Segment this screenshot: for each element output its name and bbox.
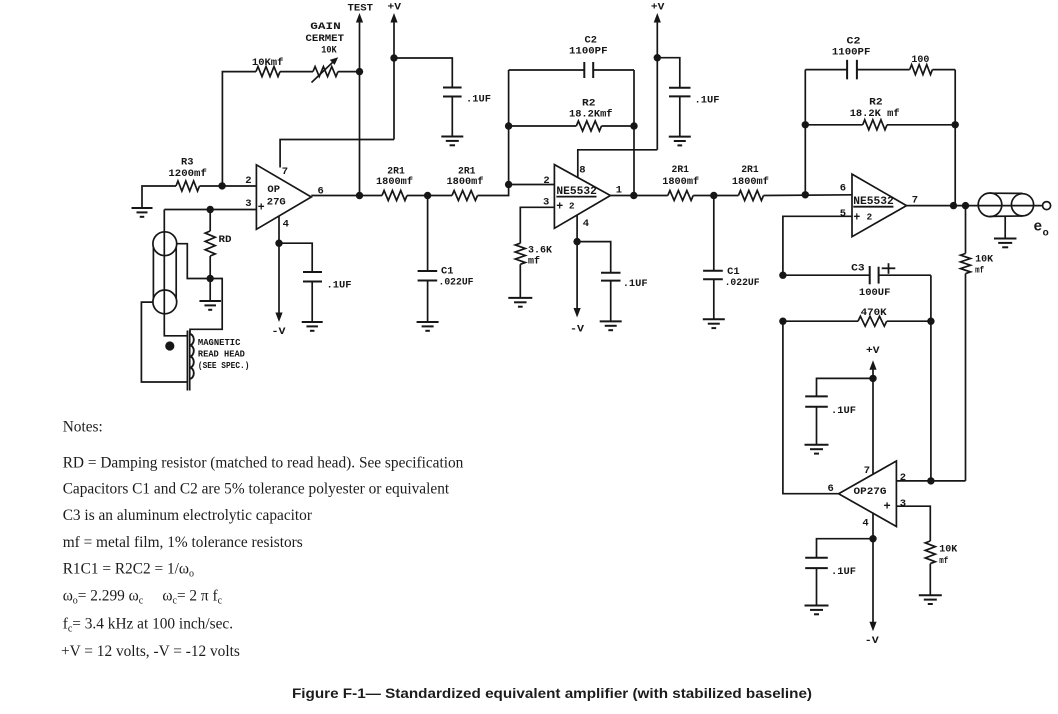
svg-text:READ HEAD: READ HEAD [198, 350, 245, 360]
svg-text:-V: -V [272, 326, 287, 338]
op-amp U3 NE5532 (stage3) [852, 174, 907, 237]
node 470K left [779, 318, 786, 325]
node R2 left (stage3) [802, 121, 809, 128]
cable loop lower [153, 290, 177, 314]
node pin4 stage4 [869, 535, 876, 542]
winding phase dot [165, 341, 174, 350]
svg-text:mf = metal film, 1% tolerance: mf = metal film, 1% tolerance resistors [63, 534, 303, 551]
node TEST junction [356, 68, 363, 75]
svg-text:MAGNETIC: MAGNETIC [198, 338, 241, 348]
wire pin 7 stage4 [872, 378, 874, 475]
node R2 left (stage2) [505, 122, 512, 129]
svg-text:2: 2 [543, 175, 549, 187]
wire cable loop1 to shield node [177, 244, 211, 279]
capacitor C1 .022UF (a) [427, 196, 429, 272]
resistor R2 18.2K mf (stage3) [805, 124, 862, 126]
svg-text:+: + [884, 500, 891, 514]
node R2 right (stage2) [630, 122, 637, 129]
read head core lines [186, 331, 188, 391]
ground under C1b [703, 318, 725, 320]
wire pin4 to bypass cap stage4 [817, 539, 874, 558]
svg-text:10Kmf: 10Kmf [252, 57, 284, 68]
ground under bias 10K [919, 594, 942, 596]
inductor read-head winding [190, 334, 194, 379]
svg-text:2R1: 2R1 [741, 164, 759, 176]
op-amp U2 NE5532 (stage2) [554, 165, 610, 229]
op-amp U4 OP27G (pointing left) [839, 461, 897, 527]
ground under output connector [1004, 216, 1006, 238]
svg-text:Notes:: Notes: [63, 418, 103, 435]
svg-text:R2: R2 [869, 97, 883, 109]
svg-text:e: e [1034, 220, 1043, 236]
svg-text:OP: OP [267, 184, 280, 196]
svg-text:10K: 10K [939, 544, 958, 556]
svg-text:Capacitors C1 and C2 are 5% to: Capacitors C1 and C2 are 5% tolerance po… [63, 481, 450, 498]
capacitor .1UF bypass stage2 [669, 87, 691, 89]
op-amp U1 OP27G [256, 165, 311, 230]
wire integrator left leg [783, 321, 839, 494]
svg-text:2: 2 [569, 201, 575, 212]
svg-text:27G: 27G [267, 196, 286, 208]
C3 polarity plus [882, 267, 896, 269]
svg-text:2: 2 [867, 212, 873, 223]
wire pin 2 stage4 [896, 480, 965, 482]
capacitor .1UF stage1 V- [303, 271, 322, 273]
svg-text:+: + [258, 202, 265, 215]
svg-text:18.2Kmf: 18.2Kmf [569, 109, 613, 121]
svg-text:GAIN: GAIN [310, 21, 341, 33]
wire pin 4 stage4 [872, 513, 874, 539]
wire pin 3 stage2 [520, 207, 554, 243]
node 470K right [927, 318, 934, 325]
node feedback/output stage2 [630, 192, 637, 199]
+V supply arrow stage 1 [393, 19, 395, 140]
svg-text:1800mf: 1800mf [662, 176, 699, 188]
wire pin 4 branch [278, 216, 280, 243]
wire +V to bypass cap C4 [394, 58, 452, 88]
node pin2 / feedback junction [218, 182, 225, 189]
svg-text:o: o [1043, 228, 1049, 240]
svg-text:TEST: TEST [348, 3, 374, 15]
cable loop upper [153, 232, 177, 256]
svg-text:2R1: 2R1 [672, 164, 690, 176]
resistor 3.6K mf [515, 243, 525, 264]
svg-text:18.2K mf: 18.2K mf [850, 108, 900, 120]
svg-text:(SEE SPEC.): (SEE SPEC.) [198, 361, 250, 371]
wire 2R1b to stage2 (jog up to pin2) [478, 185, 555, 196]
svg-text:100: 100 [911, 54, 929, 66]
wire pin4 to bypass cap C5 [279, 243, 312, 272]
capacitor C2 1100PF (stage2) [509, 69, 585, 71]
ground under C1a [417, 321, 439, 323]
svg-text:4: 4 [283, 218, 289, 230]
-V arrow stage 2 [576, 242, 578, 312]
svg-text:-V: -V [865, 635, 880, 647]
svg-text:.1UF: .1UF [327, 280, 352, 292]
ground under C5 [302, 321, 323, 323]
wire 10Kmf to pot [280, 71, 313, 73]
capacitor C1 .022UF (b) [713, 196, 715, 271]
potentiometer GAIN CERMET 10K [313, 67, 338, 77]
capacitor C3 100UF [783, 274, 870, 276]
node RD bottom / shield [207, 275, 214, 282]
svg-text:.022UF: .022UF [725, 277, 760, 289]
resistor 2R1 (d) 1800mf [714, 195, 739, 197]
node stage3 pin6 / feedback [802, 191, 809, 198]
ground under 3.6K [508, 297, 532, 299]
svg-text:fc= 3.4 kHz at 100 inch/sec.: fc= 3.4 kHz at 100 inch/sec. [63, 615, 233, 634]
svg-text:.1UF: .1UF [623, 278, 648, 290]
wire TEST down to output node [359, 72, 361, 196]
svg-text:R1C1 = R2C2 = 1/ωo: R1C1 = R2C2 = 1/ωo [63, 560, 194, 579]
-V arrow stage 4 [872, 539, 874, 626]
wire winding bottom to cable [141, 302, 187, 382]
svg-text:OP27G: OP27G [854, 486, 887, 498]
svg-text:8: 8 [579, 165, 585, 177]
-V arrow stage 1 [278, 243, 280, 316]
svg-text:+V: +V [866, 345, 880, 357]
+V supply arrow stage 4 [872, 366, 874, 378]
coax output connector [978, 193, 1002, 217]
ground under stage4 V- cap [805, 605, 829, 607]
wire pin 3 input [164, 209, 256, 211]
output terminal circle [1043, 202, 1051, 210]
svg-text:+: + [556, 200, 563, 213]
svg-text:5: 5 [840, 208, 846, 220]
wire feedback 10Kmf left leg [222, 72, 256, 186]
wire pin 3 stage4 [896, 506, 930, 541]
node C1a junction [424, 192, 431, 199]
wire shield step to head core [190, 279, 222, 335]
wire pin 4 stage2 [576, 215, 578, 241]
TEST point arrow [359, 19, 361, 72]
node output / 10K sense [962, 202, 969, 209]
wire pot to TEST node [338, 71, 360, 73]
svg-text:470K: 470K [861, 307, 888, 319]
resistor 10K mf (pin3 bias) [925, 541, 935, 564]
svg-text:1800mf: 1800mf [376, 176, 413, 188]
node C3 left [779, 272, 786, 279]
svg-text:7: 7 [864, 465, 870, 477]
resistor 2R1 (b) 1800mf [428, 195, 452, 197]
wire center conductor pin3 to winding [164, 210, 188, 336]
svg-text:7: 7 [912, 194, 918, 206]
svg-text:.1UF: .1UF [695, 94, 720, 106]
svg-text:1100PF: 1100PF [832, 47, 871, 59]
svg-text:Figure F-1— Standardized equiv: Figure F-1— Standardized equivalent ampl… [292, 685, 812, 701]
wire pin 5 stage3 [783, 216, 852, 275]
wire stage3 output [907, 205, 979, 207]
svg-text:2: 2 [900, 472, 906, 484]
wire feedback left leg stage3 [804, 70, 806, 195]
svg-text:+V = 12 volts, -V = -12 volts: +V = 12 volts, -V = -12 volts [61, 643, 240, 660]
svg-text:R3: R3 [181, 157, 194, 169]
capacitor .1UF stage2 V- [601, 272, 621, 274]
wire V+ rail to pin 7 [280, 140, 394, 168]
svg-text:ωo= 2.299 ωc ωc= 2 π fc: ωo= 2.299 ωc ωc= 2 π fc [63, 587, 223, 606]
svg-text:.1UF: .1UF [831, 405, 856, 417]
node stage2 pin2 / feedback [505, 181, 512, 188]
svg-text:+: + [853, 211, 860, 224]
svg-text:6: 6 [828, 483, 834, 495]
wire feedback left leg stage2 [508, 70, 510, 185]
node pin3 / RD top [207, 206, 214, 213]
svg-text:1800mf: 1800mf [447, 176, 484, 188]
capacitor .1UF bypass stage1 [443, 87, 462, 89]
node +V bypass branch stage2 [654, 54, 661, 61]
svg-text:.1UF: .1UF [831, 566, 856, 578]
wire R3 to pin 2 [200, 185, 257, 187]
cable sheath lines [152, 247, 154, 298]
svg-text:R2: R2 [582, 97, 596, 109]
capacitor .1UF stage4 V+ [805, 395, 828, 397]
wire to bypass cap stage2 [657, 58, 680, 88]
svg-text:mf: mf [939, 555, 948, 566]
resistor 470K [783, 320, 858, 322]
svg-text:.1UF: .1UF [466, 94, 491, 106]
resistor RD damping [209, 210, 211, 232]
svg-text:C3 is an aluminum electrolytic: C3 is an aluminum electrolytic capacitor [63, 507, 312, 524]
ground under bypass C4 [441, 136, 463, 138]
svg-text:3: 3 [900, 498, 906, 510]
svg-text:4: 4 [583, 218, 589, 230]
svg-text:1800mf: 1800mf [732, 176, 769, 188]
resistor R2 18.2Kmf (stage2) [509, 125, 577, 127]
node R2 right (stage3) [952, 121, 959, 128]
svg-text:mf: mf [528, 255, 540, 267]
svg-text:6: 6 [840, 182, 846, 194]
resistor 100 (stage3) [910, 65, 933, 75]
ground under stage2 bypass [669, 136, 691, 138]
svg-text:RD: RD [219, 234, 232, 246]
node +V stage4 [869, 375, 876, 382]
capacitor .1UF stage4 V- [805, 557, 828, 559]
svg-text:100UF: 100UF [859, 287, 891, 299]
resistor 10Kmf [256, 67, 280, 77]
ground G1 at R3 input [142, 186, 176, 208]
node +V / bypass branch [390, 54, 397, 61]
resistor R3 1200mf [176, 181, 200, 191]
resistor 2R1 (c) 1800mf [668, 191, 693, 201]
wire feedback right leg stage3 [954, 70, 956, 206]
ground under stage2 V- cap [600, 320, 622, 322]
ground G2 shield ground [209, 279, 211, 302]
svg-text:4: 4 [862, 518, 868, 530]
svg-text:10K: 10K [321, 45, 337, 57]
wire pin4 to bypass cap stage2 [577, 242, 611, 273]
svg-text:mf: mf [975, 264, 984, 275]
svg-text:CERMET: CERMET [306, 33, 345, 45]
node C1b junction [710, 192, 717, 199]
wire 2R1a to node [407, 195, 428, 197]
resistor 2R1 (a) 1800mf [382, 191, 407, 201]
node output / feedback stage3 [950, 202, 957, 209]
+V supply arrow stage 2 [656, 19, 658, 150]
svg-text:7: 7 [282, 166, 288, 178]
node stage1 output / TEST tap [356, 192, 363, 199]
wire stage1 output [311, 195, 382, 197]
capacitor C2 1100PF (stage3) [805, 69, 847, 71]
wire 2R1c to node [693, 195, 714, 197]
svg-text:.022UF: .022UF [439, 276, 474, 288]
node pin2 stage4 [927, 477, 934, 484]
svg-text:-V: -V [570, 323, 585, 335]
wire C3 right leg [930, 275, 932, 481]
svg-text:1200mf: 1200mf [168, 168, 207, 180]
wire pin 8 to +V rail [578, 150, 658, 178]
node pin4 stage2 [573, 238, 580, 245]
ground under stage4 V+ cap [805, 444, 829, 446]
node pin4 [275, 240, 282, 247]
svg-text:2: 2 [245, 175, 251, 187]
wire stage2 output [610, 195, 667, 197]
wire 2R1d to stage3 pin6 [764, 194, 853, 197]
svg-text:1100PF: 1100PF [569, 45, 608, 57]
svg-text:3: 3 [245, 198, 251, 210]
wire +V to bypass cap stage4 [817, 378, 874, 396]
wire feedback right leg stage2 [633, 70, 635, 196]
svg-text:+V: +V [651, 2, 665, 14]
svg-text:+V: +V [388, 2, 402, 14]
svg-text:RD = Damping resistor (matched: RD = Damping resistor (matched to read h… [63, 454, 464, 471]
svg-text:C3: C3 [851, 263, 865, 275]
resistor 10K mf output sense [965, 206, 967, 254]
